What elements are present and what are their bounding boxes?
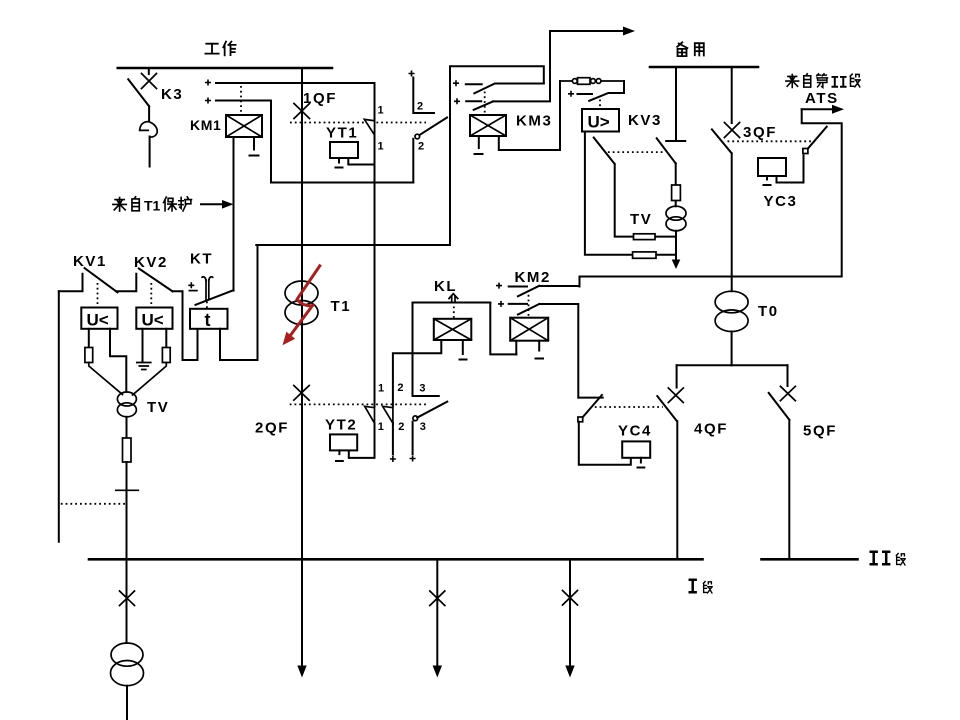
svg-text:U>: U> [588,113,610,132]
svg-text:U<: U< [142,311,164,330]
svg-text:3: 3 [419,383,425,395]
svg-text:2: 2 [397,382,403,394]
svg-text:YC4: YC4 [618,423,652,440]
svg-text:4QF: 4QF [694,421,728,438]
svg-text:KV1: KV1 [73,253,107,270]
svg-text:KV2: KV2 [134,254,168,271]
svg-text:1: 1 [378,383,384,395]
svg-text:KM1: KM1 [190,117,221,133]
svg-text:YT2: YT2 [325,417,357,434]
svg-text:YT1: YT1 [326,125,358,142]
svg-text:T1: T1 [331,298,352,315]
svg-text:TV: TV [630,211,652,228]
svg-text:KL: KL [434,278,457,295]
svg-text:2: 2 [418,141,424,153]
svg-text:K3: K3 [161,86,183,103]
svg-text:KT: KT [190,251,213,268]
svg-text:1: 1 [378,141,384,153]
svg-text:2: 2 [398,421,404,433]
svg-text:TV: TV [147,399,169,416]
svg-text:1: 1 [378,421,384,433]
svg-text:1QF: 1QF [303,90,337,107]
svg-text:KM3: KM3 [516,113,552,130]
svg-text:1: 1 [378,105,384,117]
svg-text:3: 3 [420,421,426,433]
svg-text:2QF: 2QF [255,420,289,437]
svg-text:YC3: YC3 [764,193,798,210]
svg-text:3QF: 3QF [743,124,777,141]
svg-text:t: t [205,310,211,330]
svg-text:T0: T0 [758,303,779,320]
svg-text:U<: U< [87,311,109,330]
svg-text:KM2: KM2 [515,269,551,286]
svg-text:KV3: KV3 [628,112,662,129]
svg-text:5QF: 5QF [803,423,837,440]
svg-text:ATS: ATS [805,90,839,107]
svg-text:T1: T1 [144,198,161,214]
svg-text:2: 2 [417,101,423,113]
